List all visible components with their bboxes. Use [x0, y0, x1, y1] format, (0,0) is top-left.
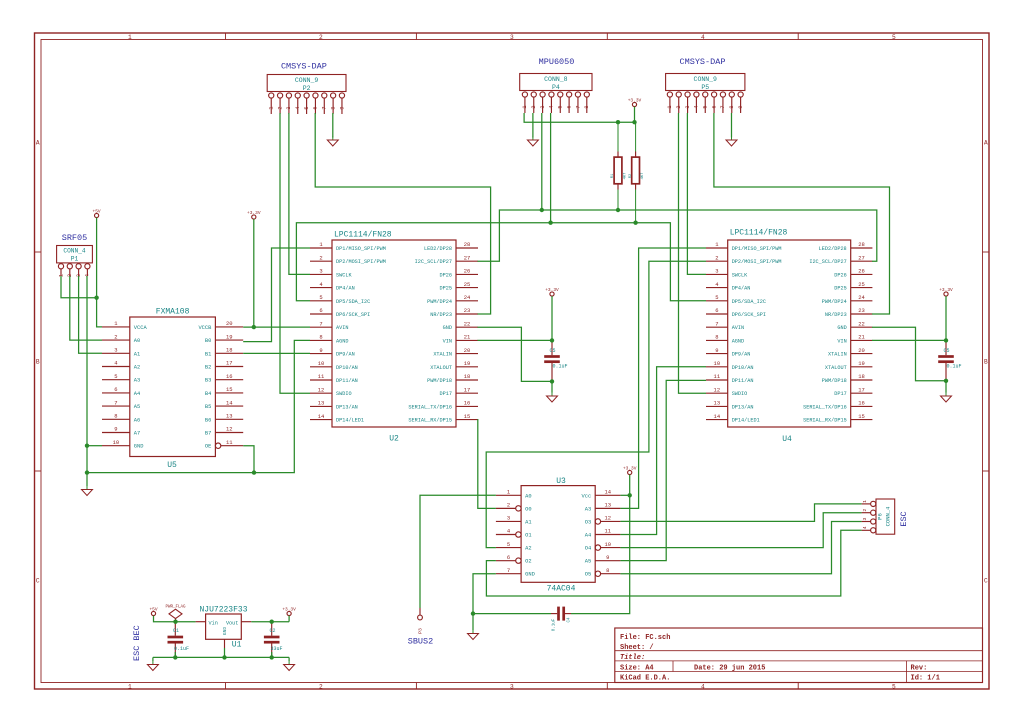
svg-text:SERIAL_RX/DP15: SERIAL_RX/DP15 — [408, 418, 452, 424]
svg-text:CONN_9: CONN_9 — [295, 77, 319, 84]
wire U3 A4 to U4 DP10 — [620, 367, 706, 535]
hex inverter U3 74AC04 — [496, 477, 621, 593]
capacitor C2 33uF — [264, 623, 283, 657]
svg-text:25: 25 — [858, 281, 865, 288]
svg-text:4: 4 — [862, 526, 868, 529]
connector P3 single pin — [418, 608, 424, 634]
junction U1 GND rail — [222, 655, 226, 659]
svg-text:CONN_4: CONN_4 — [63, 247, 86, 254]
power +3.3V (U3 Vcc) — [623, 465, 637, 474]
junction AVIN rail — [252, 325, 256, 329]
svg-text:3: 3 — [510, 34, 514, 41]
svg-text:SBUS2: SBUS2 — [408, 637, 434, 647]
svg-text:4: 4 — [85, 274, 91, 277]
wire U5 VCCB to U2 AVIN — [243, 326, 310, 328]
wire U3 O5 to ESC pin3 — [620, 522, 861, 574]
connector P2 CONN_9 (CMSYS-DAP) — [267, 75, 346, 115]
svg-text:Vout: Vout — [226, 620, 238, 626]
svg-text:AVIN: AVIN — [732, 325, 744, 331]
svg-text:B2: B2 — [205, 365, 211, 371]
svg-text:O4: O4 — [585, 546, 591, 552]
wire P1 pin3 to U5 A1 — [79, 276, 102, 353]
wire C2 to rail — [271, 652, 273, 657]
wire U3 A2 to U4 DP2 — [486, 261, 706, 547]
wire P4 pin2 to ground — [532, 113, 534, 138]
svg-text:Rev:: Rev: — [911, 665, 928, 673]
level shifter U5 FXMA108 — [102, 308, 243, 471]
junction U5 GND — [85, 444, 89, 448]
svg-text:20: 20 — [464, 347, 471, 354]
svg-text:3: 3 — [715, 268, 718, 275]
svg-text:Sheet: /: Sheet: / — [620, 644, 654, 652]
junction SDA P4 pin4 — [548, 221, 552, 225]
svg-text:CONN_4: CONN_4 — [885, 506, 892, 527]
svg-text:2: 2 — [319, 683, 323, 690]
svg-text:C2: C2 — [270, 628, 276, 634]
svg-text:AGND: AGND — [336, 338, 348, 344]
wire P4 pin4 to SDA bus — [550, 113, 552, 223]
svg-text:B0: B0 — [205, 338, 211, 344]
svg-text:1: 1 — [862, 500, 868, 503]
wire U1 GND to rail — [224, 648, 226, 657]
svg-text:15: 15 — [226, 386, 233, 393]
svg-text:17: 17 — [226, 360, 233, 367]
wire ground stem U5 — [86, 473, 88, 486]
wire U2 SERIAL_RX to U3 O0 — [478, 420, 496, 509]
svg-text:8: 8 — [584, 105, 590, 108]
svg-text:LED2/DP28: LED2/DP28 — [819, 246, 847, 252]
svg-text:A1: A1 — [134, 351, 140, 357]
wire +3.3V to U4 VIN — [945, 296, 947, 340]
svg-text:Title:: Title: — [620, 654, 645, 662]
svg-text:19: 19 — [226, 333, 233, 340]
wire P5 pin8 to ground — [731, 113, 733, 138]
svg-text:DP9/AN: DP9/AN — [732, 352, 751, 358]
ground (C5 U4) — [941, 393, 952, 403]
svg-text:GND: GND — [443, 325, 452, 331]
svg-text:KiCad E.D.A.: KiCad E.D.A. — [620, 675, 670, 683]
svg-text:15: 15 — [464, 413, 471, 420]
regulator U1 NJU7223F33 — [196, 614, 252, 650]
connector P1 CONN_4 (SRF05) — [57, 246, 93, 278]
power +3.3V (U4 VIN C5) — [939, 287, 953, 296]
svg-text:13: 13 — [318, 400, 325, 407]
svg-text:1: 1 — [128, 683, 132, 690]
svg-text:DP5/SDA_I2C: DP5/SDA_I2C — [336, 299, 370, 305]
svg-text:C4: C4 — [568, 617, 572, 623]
svg-text:8: 8 — [330, 106, 336, 109]
svg-text:6: 6 — [507, 554, 510, 561]
svg-text:A: A — [36, 140, 40, 147]
svg-text:A5: A5 — [134, 404, 140, 410]
svg-text:O3: O3 — [585, 519, 591, 525]
svg-text:FXMA108: FXMA108 — [156, 308, 190, 317]
svg-text:C: C — [36, 578, 40, 585]
svg-text:XTALIN: XTALIN — [828, 352, 847, 358]
svg-text:DP25: DP25 — [834, 286, 846, 292]
svg-text:DP4/AN: DP4/AN — [732, 286, 751, 292]
svg-text:SWCLK: SWCLK — [336, 272, 352, 278]
svg-text:A3: A3 — [134, 378, 140, 384]
resistor R2 4K7 pullup — [629, 122, 645, 223]
junction C2 node — [270, 620, 274, 624]
svg-text:B5: B5 — [205, 404, 211, 410]
svg-text:22: 22 — [464, 320, 471, 327]
svg-text:DP17: DP17 — [834, 391, 846, 397]
svg-text:9: 9 — [339, 106, 345, 109]
svg-text:SWDIO: SWDIO — [336, 391, 352, 397]
svg-text:P6: P6 — [877, 513, 884, 520]
svg-text:2: 2 — [715, 254, 718, 261]
power +5V (SRF05) — [93, 208, 101, 217]
svg-text:10: 10 — [604, 541, 611, 548]
svg-text:18: 18 — [858, 373, 865, 380]
svg-text:A1: A1 — [525, 519, 531, 525]
svg-text:6: 6 — [566, 105, 572, 108]
svg-text:P3: P3 — [418, 628, 424, 634]
junction C2 ground — [270, 655, 274, 659]
svg-text:O2: O2 — [525, 559, 531, 565]
junction SCL R1 — [616, 208, 620, 212]
svg-text:GND: GND — [525, 572, 535, 578]
junction U2 VIN C5 — [550, 338, 554, 342]
svg-text:4K7: 4K7 — [641, 173, 645, 180]
svg-text:PWR_FLAG: PWR_FLAG — [165, 605, 186, 609]
svg-text:27: 27 — [464, 254, 471, 261]
svg-text:B: B — [36, 359, 40, 366]
svg-text:8: 8 — [715, 334, 718, 341]
svg-text:4: 4 — [701, 683, 705, 690]
svg-text:28: 28 — [464, 241, 471, 248]
svg-text:A2: A2 — [525, 546, 531, 552]
svg-text:DP6/SCK_SPI: DP6/SCK_SPI — [336, 312, 370, 318]
svg-text:DP2/MOSI_SPI/PWM: DP2/MOSI_SPI/PWM — [732, 259, 782, 265]
ground (U3/C4) — [468, 630, 479, 640]
svg-text:B6: B6 — [205, 417, 211, 423]
svg-text:1: 1 — [269, 106, 275, 109]
svg-text:XTALOUT: XTALOUT — [825, 365, 847, 371]
svg-text:0.1uF: 0.1uF — [947, 364, 962, 370]
svg-text:OE: OE — [205, 444, 211, 450]
capacitor C5 0.1uF (U2) — [544, 343, 567, 381]
svg-text:3: 3 — [540, 105, 546, 108]
wire U5 B0 to U2 DP1 — [243, 248, 310, 342]
svg-text:DP2/MOSI_SPI/PWM: DP2/MOSI_SPI/PWM — [336, 259, 386, 265]
svg-text:9: 9 — [606, 554, 609, 561]
svg-text:U5: U5 — [167, 461, 177, 470]
svg-text:DP11/AN: DP11/AN — [336, 378, 358, 384]
svg-text:7: 7 — [715, 320, 718, 327]
svg-text:U1: U1 — [232, 641, 242, 650]
wire SBUS2 to U3 A0 — [420, 495, 496, 608]
svg-text:24: 24 — [464, 294, 471, 301]
svg-text:25: 25 — [464, 281, 471, 288]
svg-text:DP26: DP26 — [834, 272, 846, 278]
ground (ESC BEC left) — [147, 661, 158, 671]
svg-text:O5: O5 — [585, 572, 591, 578]
svg-text:PWM/DP18: PWM/DP18 — [427, 378, 452, 384]
svg-text:4: 4 — [295, 106, 301, 109]
svg-text:+3.3V: +3.3V — [628, 97, 642, 103]
svg-text:DP9/AN: DP9/AN — [336, 352, 355, 358]
svg-text:I2C_SCL/DP27: I2C_SCL/DP27 — [809, 259, 846, 265]
svg-text:B4: B4 — [205, 391, 211, 397]
svg-text:DP13/AN: DP13/AN — [336, 404, 358, 410]
svg-text:2: 2 — [676, 105, 682, 108]
svg-text:6: 6 — [114, 386, 117, 393]
svg-text:DP14/LED1: DP14/LED1 — [336, 418, 364, 424]
svg-text:3: 3 — [507, 515, 510, 522]
svg-text:CMSYS-DAP: CMSYS-DAP — [680, 57, 726, 67]
svg-text:A0: A0 — [525, 493, 531, 499]
svg-text:GND: GND — [837, 325, 846, 331]
svg-text:16: 16 — [858, 400, 865, 407]
svg-text:2: 2 — [531, 105, 537, 108]
power +3.3V (U2 AVIN rail) — [247, 210, 261, 219]
svg-text:+3.3V: +3.3V — [282, 606, 296, 612]
wire +3.3V to U2 VIN — [551, 296, 553, 340]
svg-text:28: 28 — [858, 241, 865, 248]
svg-text:+3.3V: +3.3V — [939, 287, 953, 293]
svg-text:14: 14 — [226, 399, 233, 406]
svg-text:2: 2 — [862, 509, 868, 512]
svg-text:18: 18 — [464, 373, 471, 380]
wire U3 O2 to ESC pin4 — [486, 530, 861, 596]
wire +5V to U1 Vin — [154, 616, 196, 622]
junction C1 ground — [173, 655, 177, 659]
svg-text:A: A — [984, 140, 988, 147]
svg-text:7: 7 — [507, 567, 510, 574]
svg-text:C: C — [984, 578, 988, 585]
svg-text:26: 26 — [858, 268, 865, 275]
wire C5 to ground (U4) — [945, 381, 947, 393]
wire +5V to P1 pin1 and U5 VCCA — [97, 218, 102, 327]
svg-text:PWM/DP24: PWM/DP24 — [427, 299, 452, 305]
svg-text:File: FC.sch: File: FC.sch — [620, 634, 670, 642]
svg-text:12: 12 — [714, 386, 721, 393]
svg-text:P5: P5 — [701, 84, 709, 91]
svg-text:24: 24 — [858, 294, 865, 301]
wire P2 pin2 to U2 SWDIO — [280, 113, 310, 393]
MCU U4 LPC1114/FN28 — [706, 229, 872, 445]
resistor R1 4K7 pullup — [611, 122, 627, 210]
wire U3 GND to ground — [473, 574, 551, 614]
svg-text:DP25: DP25 — [440, 286, 452, 292]
svg-text:CMSYS-DAP: CMSYS-DAP — [281, 62, 327, 72]
wire ground rail to AGND — [87, 340, 310, 472]
wire P1 pin4 to ground rail — [86, 276, 88, 473]
wire U4 GND to C5 bottom — [872, 327, 946, 381]
ground (C5 U2) — [547, 393, 558, 403]
svg-text:26: 26 — [464, 268, 471, 275]
svg-text:AGND: AGND — [732, 338, 744, 344]
svg-text:SWCLK: SWCLK — [732, 272, 748, 278]
svg-text:23: 23 — [858, 307, 865, 314]
wire U4 VIN to C5 — [872, 339, 946, 341]
svg-text:5: 5 — [114, 373, 117, 380]
wire P4 pin1 to 3.3V pullup rail — [524, 113, 634, 122]
svg-text:27: 27 — [858, 254, 865, 261]
wire P1 pin2 to U5 A0 — [70, 276, 102, 340]
MCU U2 LPC1114/FN28 — [310, 231, 478, 444]
svg-text:3: 3 — [286, 106, 292, 109]
svg-text:VCCB: VCCB — [198, 325, 212, 331]
svg-text:Id: 1/1: Id: 1/1 — [911, 675, 940, 683]
wire P5 pin6 to U4 NR/DP23 — [714, 113, 890, 314]
svg-text:21: 21 — [464, 334, 471, 341]
svg-text:0.1uF: 0.1uF — [553, 364, 568, 370]
svg-text:19: 19 — [464, 360, 471, 367]
svg-text:O1: O1 — [525, 533, 531, 539]
wire C5 to ground (U2) — [551, 381, 553, 392]
wire P4 pin3 to SCL bus — [541, 113, 543, 210]
wire P2 pin6 to U2 NR/DP23 — [315, 113, 490, 314]
svg-text:10: 10 — [714, 360, 721, 367]
svg-text:2: 2 — [507, 502, 510, 509]
ground (P4 pin2) — [527, 137, 538, 147]
power +3.3V (U2 VIN C5) — [545, 287, 559, 296]
svg-text:SERIAL_RX/DP15: SERIAL_RX/DP15 — [803, 418, 847, 424]
svg-text:4K7: 4K7 — [624, 173, 628, 180]
svg-text:+5V: +5V — [93, 208, 101, 214]
svg-text:17: 17 — [464, 386, 471, 393]
junction pullup rail +3.3V — [632, 120, 636, 124]
svg-text:A2: A2 — [134, 365, 140, 371]
wire U5 GND stub — [87, 445, 102, 447]
svg-text:SRF05: SRF05 — [62, 233, 88, 243]
junction U3 Vcc — [628, 493, 632, 497]
svg-text:5: 5 — [703, 105, 709, 108]
wire U3 gnd stem — [472, 614, 474, 630]
svg-text:+5V: +5V — [149, 606, 157, 612]
svg-text:NR/DP23: NR/DP23 — [825, 312, 847, 318]
ground (U5/SRF05) — [82, 486, 93, 496]
ground (ESC BEC right) — [284, 661, 295, 671]
svg-text:6: 6 — [319, 307, 322, 314]
wire U3 A3 to U4 DP1 — [620, 248, 706, 508]
wire rail to right ground — [288, 657, 290, 661]
svg-text:VIN: VIN — [837, 338, 846, 344]
svg-text:6: 6 — [711, 105, 717, 108]
junction U4 VIN C5 — [944, 338, 948, 342]
svg-text:VCCA: VCCA — [134, 325, 148, 331]
svg-text:5: 5 — [507, 541, 510, 548]
svg-text:+3.3V: +3.3V — [623, 465, 637, 471]
svg-text:C1: C1 — [173, 628, 179, 634]
svg-text:15: 15 — [858, 413, 865, 420]
svg-text:1: 1 — [522, 105, 528, 108]
svg-text:3: 3 — [685, 105, 691, 108]
svg-text:O0: O0 — [525, 506, 531, 512]
svg-text:21: 21 — [858, 334, 865, 341]
svg-text:GND: GND — [134, 444, 144, 450]
svg-text:5: 5 — [558, 105, 564, 108]
svg-text:12: 12 — [226, 426, 233, 433]
svg-text:A0: A0 — [134, 338, 140, 344]
svg-text:U2: U2 — [389, 435, 399, 444]
svg-text:23: 23 — [464, 307, 471, 314]
svg-text:0.1uF: 0.1uF — [174, 646, 189, 652]
svg-text:P1: P1 — [71, 255, 79, 262]
svg-text:16: 16 — [226, 373, 233, 380]
svg-text:DP13/AN: DP13/AN — [732, 404, 754, 410]
title block — [615, 628, 983, 683]
wire U2 VIN to C5 — [478, 339, 553, 341]
wire P1 pin1 branch — [61, 276, 97, 298]
wire +3.3V to pullup rail — [634, 107, 636, 123]
svg-text:A4: A4 — [585, 533, 591, 539]
svg-text:LED2/DP28: LED2/DP28 — [424, 246, 452, 252]
svg-text:3: 3 — [510, 683, 514, 690]
svg-text:9: 9 — [319, 347, 322, 354]
junction pullup rail R1 — [616, 120, 620, 124]
svg-text:Date: 29 jun 2015: Date: 29 jun 2015 — [694, 665, 765, 673]
wire U1 Vout to +3.3V — [251, 621, 289, 623]
svg-text:LPC1114/FN28: LPC1114/FN28 — [730, 229, 788, 238]
junction C5 ground node (U4) — [944, 379, 948, 383]
svg-text:DP14/LED1: DP14/LED1 — [732, 418, 760, 424]
connector P4 CONN_8 (MPU6050) — [520, 74, 592, 114]
wire P5 pin3 to U4 SWCLK — [687, 113, 706, 274]
svg-text:5: 5 — [892, 683, 896, 690]
connector P6 CONN_4 (ESC) — [862, 499, 895, 534]
svg-text:9: 9 — [738, 105, 744, 108]
capacitor C4 0.1uF decoupling — [551, 607, 572, 632]
svg-text:11: 11 — [604, 528, 611, 535]
svg-text:DP10/AN: DP10/AN — [336, 365, 358, 371]
svg-text:7: 7 — [575, 105, 581, 108]
svg-text:9: 9 — [114, 426, 117, 433]
svg-text:5: 5 — [319, 294, 322, 301]
svg-text:22: 22 — [858, 320, 865, 327]
svg-text:16: 16 — [464, 400, 471, 407]
power +5V (ESC BEC in) — [149, 606, 157, 615]
svg-text:DP1/MISO_SPI/PWM: DP1/MISO_SPI/PWM — [732, 246, 782, 252]
svg-text:DP10/AN: DP10/AN — [732, 365, 754, 371]
svg-text:8: 8 — [606, 567, 609, 574]
power +3.3V (regulator out) — [282, 606, 296, 615]
svg-text:R2: R2 — [629, 173, 633, 178]
svg-text:2: 2 — [114, 333, 117, 340]
svg-text:A3: A3 — [585, 506, 591, 512]
svg-text:74AC04: 74AC04 — [547, 585, 576, 594]
svg-text:9: 9 — [715, 347, 718, 354]
svg-text:11: 11 — [226, 439, 233, 446]
junction PWR_FLAG C1 node — [173, 620, 177, 624]
junction SDA R2 — [633, 221, 637, 225]
svg-text:B7: B7 — [205, 431, 211, 437]
svg-text:2: 2 — [319, 254, 322, 261]
wire U3 A5 to U4 DP11 — [620, 380, 706, 560]
svg-text:C5: C5 — [944, 348, 950, 354]
svg-text:DP26: DP26 — [440, 272, 452, 278]
svg-text:P4: P4 — [552, 84, 560, 91]
svg-text:11: 11 — [318, 373, 325, 380]
svg-text:13: 13 — [226, 413, 233, 420]
svg-text:2: 2 — [277, 106, 283, 109]
svg-text:A5: A5 — [585, 559, 591, 565]
capacitor C5 0.1uF (U4) — [938, 343, 961, 381]
wire SCL bus — [478, 210, 877, 261]
svg-text:33uF: 33uF — [271, 646, 283, 652]
svg-text:NR/DP23: NR/DP23 — [430, 312, 452, 318]
svg-text:B: B — [984, 359, 988, 366]
svg-text:DP11/AN: DP11/AN — [732, 378, 754, 384]
svg-text:ESC BEC: ESC BEC — [132, 625, 142, 661]
svg-text:12: 12 — [604, 515, 611, 522]
svg-text:8: 8 — [319, 334, 322, 341]
svg-text:14: 14 — [318, 413, 325, 420]
